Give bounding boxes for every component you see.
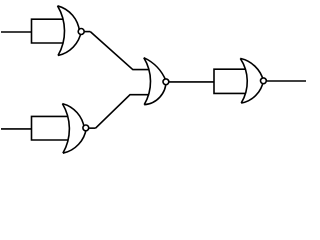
U2 bottom arc — [63, 128, 86, 153]
U1 back (input) arc — [58, 6, 65, 56]
U4 output bubble — [261, 78, 267, 84]
U3 top arc — [144, 58, 166, 81]
wire U4 output — [267, 80, 306, 82]
U2 output bubble — [83, 125, 89, 131]
U3 output bubble — [163, 79, 169, 85]
wire U1 output to U3 top input — [90, 32, 149, 70]
U1 output bubble — [78, 29, 84, 35]
U2 back (input) arc — [62, 104, 69, 154]
U1 bottom arc — [58, 32, 81, 56]
U1 top arc — [58, 6, 80, 32]
U1 output stub — [85, 31, 91, 33]
gate U4 (right NOR) — [214, 58, 306, 103]
wire input B to U2 — [1, 128, 31, 130]
U4 input box — [214, 69, 246, 93]
U1 input box — [32, 19, 64, 43]
gate U3 (middle NOR) — [144, 58, 169, 105]
wire U2 output to U3 bottom input — [96, 95, 150, 129]
U2 top arc — [62, 104, 84, 129]
wire U3 output to U4 input — [169, 81, 214, 83]
gate U2 (bottom-left NOR) — [1, 104, 96, 154]
U4 bottom arc — [241, 81, 263, 104]
U2 output stub — [89, 127, 95, 129]
U2 input box — [32, 116, 69, 140]
U3 back (input) arc — [144, 58, 151, 105]
U3 bottom arc — [144, 81, 166, 105]
U4 back (input) arc — [240, 58, 247, 103]
wire input A to U1 — [1, 31, 31, 33]
U4 top arc — [240, 58, 263, 80]
gate U1 (top-left NOR) — [1, 6, 90, 56]
